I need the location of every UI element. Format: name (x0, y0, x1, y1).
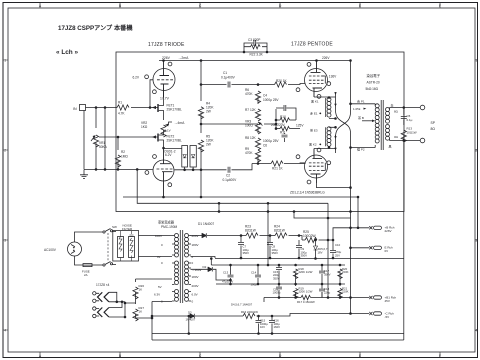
node bus junctions (267, 196, 359, 212)
resistor R26 1K (133, 279, 144, 303)
wire input to R1 (86, 107, 151, 109)
svg-text:25V: 25V (335, 253, 340, 257)
svg-text:17JZ8 ×4: 17JZ8 ×4 (96, 283, 110, 287)
svg-text:C6: C6 (263, 144, 267, 148)
rail row2 top (211, 264, 345, 266)
capacitor C1 0.1u (201, 71, 258, 88)
wire input shield down (83, 111, 85, 170)
label K2 (309, 143, 321, 147)
svg-text:R2: R2 (121, 150, 125, 154)
wire V3 screen (322, 76, 330, 86)
label 17JZ8 PENTODE (291, 42, 333, 48)
label Lch (56, 49, 78, 56)
svg-text:136V: 136V (329, 75, 337, 79)
svg-text:470K: 470K (245, 92, 253, 96)
label 17.7V (160, 97, 170, 101)
arrow marks phase (334, 92, 337, 150)
wire right vertical x351 (350, 211, 352, 314)
capacitor C8 100u (267, 236, 278, 259)
svg-text:F: F (439, 4, 441, 8)
resistor R17 0.15ohm (297, 292, 370, 304)
resistor R23 82ohm (245, 225, 258, 239)
capacitor C9 100u (296, 240, 307, 258)
svg-text:SP: SP (431, 121, 436, 125)
transformer PT secondary winding (185, 234, 192, 302)
svg-text:« Lch »: « Lch » (56, 49, 78, 56)
svg-text:白: 白 (391, 103, 394, 108)
pin circle V2 cathode (168, 183, 172, 187)
pin circle V1 heater top (133, 75, 149, 79)
svg-text:2A: 2A (84, 273, 88, 277)
resistor R4 120K (198, 102, 214, 119)
wire input ground bus (84, 169, 201, 171)
wire plug bottom (75, 256, 84, 265)
svg-text:1000μ 25V: 1000μ 25V (263, 98, 279, 102)
svg-text:0.1V: 0.1V (165, 129, 171, 133)
transformer T1 primary winding (375, 104, 379, 148)
wire plug top (75, 232, 104, 242)
wire OPT P2 (351, 147, 376, 149)
svg-text:226V: 226V (385, 229, 392, 233)
rail row3 mid (216, 283, 345, 285)
svg-text:350V: 350V (324, 272, 331, 276)
frame zone ticks bottom (40, 352, 440, 358)
svg-text:C: C (199, 4, 202, 8)
svg-text:8Ω: 8Ω (394, 110, 399, 114)
svg-text:R11: R11 (280, 131, 286, 135)
svg-text:PMC-190M: PMC-190M (161, 225, 177, 229)
svg-text:1.05k: 1.05k (353, 107, 361, 111)
svg-text:2W: 2W (206, 110, 211, 114)
svg-text:D2: D2 (203, 265, 207, 269)
resistor R7 12K (245, 96, 261, 121)
capacitor C3 feedback (244, 38, 267, 51)
svg-text:1000μ: 1000μ (273, 291, 281, 295)
transformer T1 label (366, 73, 381, 91)
wire R24 R25 (289, 235, 306, 240)
capacitor C13 47u (222, 264, 234, 284)
svg-text:226V: 226V (322, 56, 330, 60)
svg-text:1K: 1K (139, 288, 143, 292)
label 17JZ8 TRIODE (148, 42, 185, 48)
transformer T1 secondary winding (386, 108, 390, 141)
label 4mA arrow (169, 121, 186, 125)
label E1 (310, 111, 321, 116)
label PT primary taps (154, 234, 163, 304)
capacitor C18 (319, 284, 331, 298)
resistor R10 (275, 115, 296, 122)
capacitor C2 0.1u (201, 164, 252, 182)
svg-text:220K 1/2W: 220K 1/2W (299, 290, 313, 294)
svg-text:100Ω: 100Ω (245, 124, 253, 128)
svg-text:1KΩ: 1KΩ (141, 125, 148, 129)
svg-text:E: E (359, 354, 361, 358)
wire plate load column (200, 60, 202, 198)
potentiometer VR2 1K (141, 121, 169, 137)
wire pot tap down (104, 107, 106, 170)
svg-text:C13: C13 (223, 271, 229, 275)
capacitor C14 (251, 264, 262, 286)
label D4567 (231, 303, 253, 307)
diode D3 (151, 311, 243, 335)
ground symbol input (80, 169, 88, 178)
resistor R8 12K (245, 127, 261, 150)
svg-text:B: B (119, 354, 121, 358)
resistor R11 (275, 126, 300, 134)
resistor R19 220K (293, 284, 312, 298)
svg-text:470K: 470K (245, 151, 253, 155)
tube V2 triode lower (153, 147, 174, 198)
wire R25 out up to B plus (332, 228, 351, 241)
svg-text:2: 2 (475, 149, 477, 153)
pin circle V4 a (307, 180, 311, 184)
svg-text:4: 4 (4, 329, 6, 333)
label 1.05k (353, 107, 366, 111)
wire V4 plate down (317, 183, 351, 188)
terminal E Rch (369, 246, 393, 254)
label P1 blue (357, 99, 365, 104)
svg-text:ASTR-20: ASTR-20 (367, 81, 380, 85)
wire NF to PT 100V (139, 235, 173, 237)
resistor R22 3.3K (243, 45, 268, 57)
svg-text:0V: 0V (157, 255, 161, 259)
svg-text:10V: 10V (260, 325, 265, 329)
filter element L2 (129, 231, 135, 261)
svg-text:R1: R1 (118, 101, 122, 105)
wire bus A plate return (123, 196, 358, 198)
wire OPT B tap (362, 120, 375, 123)
wire PT 0V to ground rail (191, 257, 216, 259)
svg-text:82Ω1W: 82Ω1W (245, 229, 256, 233)
svg-text:ZD1,2,3,4 1N5363BRLG: ZD1,2,3,4 1N5363BRLG (290, 191, 325, 195)
title 17JZ8 CSPP amp (58, 24, 133, 32)
wire bus E ground (136, 169, 328, 204)
svg-text:1N4007: 1N4007 (186, 318, 196, 322)
resistor R9 470K (245, 143, 261, 164)
diode D2 (191, 265, 231, 280)
zener ZD5 (314, 239, 328, 258)
label PT secondary taps (192, 234, 202, 304)
svg-text:10Ω1W: 10Ω1W (407, 131, 417, 135)
svg-text:0Ω: 0Ω (394, 135, 399, 139)
label 226V pentode (322, 56, 330, 60)
pin circle V3 a (307, 63, 311, 67)
svg-text:2W: 2W (206, 143, 211, 147)
frame zone ticks left (3, 60, 8, 330)
svg-text:黒 K2: 黒 K2 (309, 143, 317, 147)
svg-text:3: 3 (4, 239, 6, 243)
bottom rail PSU (152, 333, 404, 335)
svg-text:0.1μ: 0.1μ (407, 118, 413, 122)
label 136V (329, 75, 337, 79)
svg-text:220K: 220K (342, 270, 349, 274)
wire to -C (351, 313, 370, 315)
svg-text:100μ: 100μ (251, 283, 258, 287)
input jack IN (73, 105, 86, 112)
svg-text:茶 E3: 茶 E3 (310, 128, 318, 133)
plate supply rail 226V (159, 60, 351, 62)
svg-text:R8 12K: R8 12K (245, 136, 257, 140)
wire drop x268 (267, 203, 269, 265)
svg-text:黒: 黒 (389, 145, 392, 149)
capacitor C15b 220u (273, 265, 282, 284)
svg-text:→4mA: →4mA (174, 121, 185, 125)
svg-text:F: F (439, 354, 441, 358)
svg-text:R10: R10 (280, 115, 286, 119)
wire cross couple B (336, 112, 351, 137)
svg-text:R7 12K: R7 12K (245, 108, 257, 112)
svg-text:180V: 180V (192, 243, 199, 247)
capacitor C16b 1000u (273, 284, 283, 298)
capacitor C7 100u (238, 235, 249, 258)
capacitor C15 1000u (256, 315, 269, 333)
wire drop x328 (327, 203, 329, 298)
svg-text:AC100V: AC100V (44, 248, 57, 252)
wire junction to VR1 (95, 108, 97, 170)
switch link dashed (107, 233, 109, 261)
svg-text:17.7V: 17.7V (160, 97, 170, 101)
svg-text:C4: C4 (263, 94, 267, 98)
frame zone ticks right (475, 60, 478, 330)
terminal -C Rch (369, 311, 394, 319)
transformer T1 core (381, 100, 383, 150)
wire right rail from OPT (403, 141, 405, 334)
svg-text:2SK170BL: 2SK170BL (167, 108, 182, 112)
svg-text:D1 1N4007: D1 1N4007 (198, 222, 214, 226)
svg-text:0V: 0V (385, 249, 389, 253)
label NOISE FILTER (122, 224, 133, 232)
inductor E1 choke upper (326, 98, 337, 120)
AC plug (68, 242, 82, 256)
svg-text:3: 3 (475, 239, 477, 243)
wire left vertical cathode bus (335, 92, 337, 153)
fuse F1 (82, 264, 92, 277)
svg-text:→2mA: →2mA (178, 56, 189, 60)
potentiometer VR1 50KA (91, 135, 108, 149)
label 200/220V 125V (271, 123, 304, 128)
svg-text:220μ: 220μ (324, 290, 331, 294)
svg-text:0.1μ400V: 0.1μ400V (223, 178, 238, 182)
resistor R27 1K (133, 303, 152, 321)
svg-text:18V: 18V (318, 250, 323, 254)
svg-text:E: E (359, 4, 361, 8)
wire D2 top (210, 258, 212, 265)
svg-text:D4,5,6,7 1N4007: D4,5,6,7 1N4007 (231, 303, 253, 307)
svg-text:350V: 350V (272, 251, 279, 255)
svg-text:6.2V: 6.2V (165, 153, 172, 157)
svg-text:125V: 125V (296, 124, 304, 128)
svg-text:B: B (119, 4, 121, 8)
label B brown (358, 115, 364, 120)
resistor R18 220K (293, 265, 312, 284)
wire B plus vertical right (350, 60, 352, 212)
amplifier enclosure box (116, 52, 404, 212)
transformer PT core (180, 230, 182, 303)
noise filter box (113, 231, 139, 262)
inductor E2 choke lower (326, 126, 337, 146)
resistor R6 470K (245, 85, 261, 104)
svg-text:6.0V: 6.0V (192, 293, 198, 297)
capacitor C17 (319, 265, 331, 284)
diode OSD1,2 pair (164, 146, 197, 170)
wire R4 R5 tap to VR3 (200, 123, 277, 125)
ground rail PSU (215, 257, 404, 259)
wire V1 grid (149, 80, 153, 109)
wire drop x294 (294, 212, 351, 219)
resistor R2 1M (115, 136, 128, 169)
wire cross couple A (336, 110, 351, 133)
svg-text:0: 0 (161, 243, 163, 247)
pin circle V3 h (296, 88, 300, 92)
bottom rail PSU second (152, 334, 404, 341)
svg-text:D3: D3 (188, 311, 192, 315)
svg-text:1000μ 25V: 1000μ 25V (263, 139, 279, 143)
svg-text:茶 B: 茶 B (358, 115, 364, 120)
svg-text:350V: 350V (243, 251, 250, 255)
svg-text:D: D (279, 4, 282, 8)
label 226V 2mA (162, 56, 189, 60)
transistor FET1 2SK170BL (150, 88, 182, 120)
svg-text:1K: 1K (139, 310, 143, 314)
svg-text:赤 E1: 赤 E1 (310, 111, 318, 116)
wire VR1 wiper to FET2 gate (99, 136, 158, 138)
pin circle V1 plate (168, 62, 172, 66)
pin circle V4 h (296, 155, 300, 159)
capacitor C4 1000u 25V (263, 94, 296, 130)
svg-text:R16 220Ω1W: R16 220Ω1W (241, 310, 258, 314)
resistor R20b 220K (338, 265, 349, 284)
switch SW pole1 (103, 229, 116, 234)
resistor R25 100ohm (303, 230, 333, 243)
svg-text:45V: 45V (385, 299, 390, 303)
svg-text:17JZ8 TRIODE: 17JZ8 TRIODE (148, 42, 185, 48)
resistor R16 220ohm (241, 310, 351, 319)
wire drop B plus vertical (357, 197, 359, 228)
svg-text:2: 2 (4, 149, 6, 153)
tube V1 triode upper (153, 60, 175, 97)
wire V4 cathode link (314, 147, 336, 149)
svg-text:R22 3.3K: R22 3.3K (250, 53, 264, 57)
svg-text:160V: 160V (274, 325, 281, 329)
svg-text:47μ350V: 47μ350V (222, 280, 233, 284)
label 0.1V (165, 129, 171, 133)
label K1 (311, 100, 319, 104)
wire NF to PT 0V (139, 256, 173, 258)
pin circle V2 osd (153, 155, 157, 159)
label SW (112, 225, 117, 229)
svg-text:0: 0 (192, 261, 194, 265)
wire heater to PT 6.3V (136, 279, 173, 334)
svg-text:染谷電子: 染谷電子 (367, 73, 381, 78)
svg-text:SW: SW (112, 225, 117, 229)
svg-text:100V: 100V (155, 234, 162, 238)
svg-text:青 P1: 青 P1 (357, 99, 365, 104)
wire secondary bottom (390, 140, 421, 142)
pin circle V4 k (317, 148, 321, 152)
node input junction (95, 107, 97, 109)
label ZD1-4 (290, 191, 325, 195)
wire V3 cathode to choke (314, 97, 336, 99)
svg-text:5kΩ:16Ω: 5kΩ:16Ω (366, 87, 379, 91)
svg-text:180V: 180V (192, 275, 199, 279)
wire PT tap 160V (190, 267, 192, 269)
heater H2 pair (93, 307, 109, 318)
svg-text:IN: IN (73, 107, 77, 111)
svg-text:C10: C10 (335, 243, 341, 247)
wire E rail right (350, 247, 370, 249)
terminal SP plus (420, 105, 425, 110)
label SP 8ohm (431, 121, 436, 131)
pin circle V2 heater (145, 171, 149, 175)
svg-text:C3 820P: C3 820P (248, 38, 260, 42)
pin circle V1 heater bottom (153, 90, 157, 94)
resistor R5 120K (198, 135, 214, 153)
svg-text:→160V: →160V (192, 268, 202, 272)
svg-text:1MΩ: 1MΩ (121, 155, 128, 159)
svg-text:17JZ8 CSPPアンプ 本番機: 17JZ8 CSPPアンプ 本番機 (58, 24, 133, 32)
transistor FET2 2SK170BL (153, 130, 182, 148)
svg-text:350V: 350V (301, 254, 308, 258)
svg-text:黒 K1: 黒 K1 (311, 100, 319, 104)
tube V4 pentode lower (305, 149, 328, 184)
label E3 (310, 128, 318, 133)
tube V3 pentode upper (305, 60, 328, 97)
wire connector x219 (218, 202, 220, 212)
wire secondary top (390, 107, 421, 109)
capacitor C16 100u (269, 315, 280, 333)
svg-text:0: 0 (192, 255, 194, 259)
rail4 row (264, 297, 301, 302)
svg-text:6.3V: 6.3V (154, 293, 160, 297)
svg-text:0: 0 (161, 261, 163, 265)
svg-text:C1: C1 (223, 71, 227, 75)
label white 8ohm (391, 103, 399, 114)
svg-text:17JZ8 PENTODE: 17JZ8 PENTODE (291, 42, 333, 48)
svg-text:東栄変成器: 東栄変成器 (158, 220, 175, 225)
label black 0ohm (389, 135, 399, 149)
capacitor C10 470u 25V (330, 240, 342, 259)
heater H1 pair (93, 292, 109, 303)
wire heater bus (109, 292, 136, 318)
svg-text:220K: 220K (342, 290, 349, 294)
resistor R21 1K grid (252, 161, 306, 171)
resistor R24 82ohm (274, 225, 287, 239)
potentiometer VR3 100 (245, 114, 263, 134)
svg-text:4: 4 (475, 329, 477, 333)
terminal +B Rch (369, 226, 394, 234)
resistor R1 4.7K (117, 101, 129, 116)
wire OPT P1 (350, 103, 376, 105)
wire PT 6.3V taps (151, 302, 172, 319)
switch SW pole2 (92, 262, 116, 267)
svg-text:6.2V: 6.2V (133, 75, 140, 79)
terminal +B2 Rch (369, 295, 396, 303)
resistor R20 1K grid (257, 79, 305, 87)
label P2 orange (357, 147, 365, 152)
wire V4 grid (300, 162, 305, 165)
capacitor C6 1000u 25V (263, 133, 288, 148)
svg-text:200/220V: 200/220V (271, 123, 286, 127)
transformer PT primary winding (172, 234, 179, 302)
resistor R21b 220K (338, 284, 349, 298)
wire R23 R24 (260, 235, 276, 237)
terminal SP minus (420, 138, 425, 143)
svg-text:1: 1 (4, 59, 6, 63)
resistor R13 10ohm (401, 120, 417, 143)
filter element L1 (118, 231, 124, 261)
svg-text:8Ω: 8Ω (431, 127, 436, 131)
svg-text:2SK170BL: 2SK170BL (167, 139, 182, 143)
